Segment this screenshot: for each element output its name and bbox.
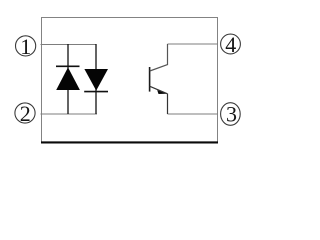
wire pin1 to anode rail bbox=[41, 44, 97, 46]
package outline box bbox=[41, 17, 218, 142]
svg-text:2: 2 bbox=[20, 101, 31, 126]
diode D1 (left, pointing up) bbox=[56, 44, 80, 114]
wire pin2 to cathode rail bbox=[41, 113, 98, 115]
svg-text:3: 3 bbox=[226, 102, 237, 127]
svg-text:4: 4 bbox=[225, 32, 236, 57]
svg-text:1: 1 bbox=[20, 34, 31, 59]
pin 2 bbox=[15, 101, 35, 126]
phototransistor Q1 bbox=[150, 44, 168, 114]
pin 4 bbox=[221, 32, 241, 57]
diode D2 (right, pointing down) bbox=[84, 44, 108, 114]
wire emitter to pin3 bbox=[168, 113, 219, 115]
pin 1 bbox=[16, 34, 36, 59]
pin 3 bbox=[221, 102, 241, 127]
wire collector to pin4 bbox=[168, 43, 219, 45]
